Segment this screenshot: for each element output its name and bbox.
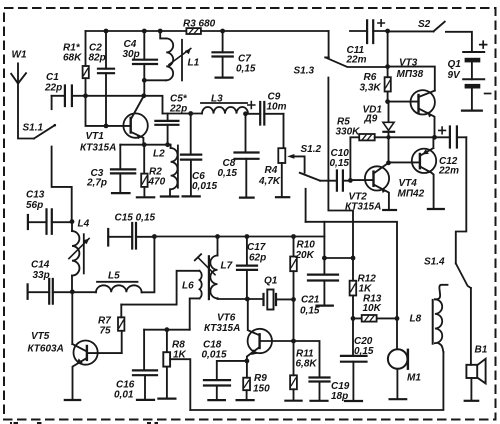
svg-text:9V: 9V: [448, 70, 462, 81]
svg-text:0,015: 0,015: [192, 181, 217, 192]
resistor R12: [350, 258, 357, 318]
capacitor C9: [246, 102, 284, 125]
svg-text:3,3K: 3,3K: [360, 83, 382, 94]
wire R10 to VT6 base node: [293, 299, 295, 341]
microphone M1: [388, 318, 408, 399]
svg-text:Д9: Д9: [364, 114, 378, 125]
svg-text:R4: R4: [265, 165, 278, 176]
capacitor C10: [320, 171, 350, 191]
svg-text:B1: B1: [475, 345, 488, 356]
inductor L6: [190, 271, 202, 330]
svg-text:КТ603А: КТ603А: [28, 344, 64, 355]
svg-text:1K: 1K: [173, 350, 187, 361]
svg-text:L3: L3: [211, 94, 223, 105]
wire L8 bottom to ground bus: [190, 352, 443, 410]
svg-text:4,7K: 4,7K: [258, 176, 281, 187]
resistor R10: [290, 234, 297, 299]
svg-text:L5: L5: [108, 271, 120, 282]
svg-text:КТ315А: КТ315А: [345, 202, 381, 213]
svg-text:18p: 18p: [331, 391, 348, 402]
switch S1.1 arm: [34, 124, 56, 139]
capacitor C16: [133, 330, 157, 400]
svg-text:S1.3: S1.3: [294, 66, 315, 77]
antenna W1: [11, 63, 34, 138]
battery Q1: [462, 41, 491, 110]
resistor R6: [385, 31, 391, 102]
svg-text:VT3: VT3: [399, 58, 418, 69]
wire top rail: [86, 30, 329, 32]
svg-text:МП42: МП42: [398, 189, 425, 200]
wire C12 to S1.4 pole: [456, 137, 467, 263]
switch S1.3 lower contact long wire: [328, 78, 353, 258]
speaker B1: [465, 288, 486, 401]
transistor VT6: [247, 299, 294, 361]
wire C1 node to VT1 collector node and C5 jog: [86, 96, 163, 114]
svg-text:470: 470: [148, 177, 166, 188]
wire C21 node to R12 node: [324, 257, 353, 259]
svg-text:R9: R9: [254, 373, 267, 384]
wire L7 bottom to crystal: [218, 297, 264, 300]
svg-text:C1: C1: [46, 72, 59, 83]
svg-text:L7: L7: [221, 261, 233, 272]
switch S1.1 pole contact: [51, 96, 53, 109]
svg-text:КТ315А: КТ315А: [204, 323, 240, 334]
wire VT3 base: [388, 101, 419, 103]
switch S1.3 pole: [325, 31, 329, 57]
capacitor C5: [155, 114, 178, 145]
svg-text:22m: 22m: [346, 55, 367, 66]
node C10/R5/VT2 base: [348, 178, 353, 183]
capacitor C11: [350, 20, 388, 43]
node C14/L5: [70, 289, 75, 294]
svg-text:КТ315А: КТ315А: [80, 143, 116, 154]
svg-text:C13: C13: [26, 190, 45, 201]
switch S1.4 arm: [456, 263, 471, 288]
wire line A from S1.2 contact to M1: [306, 222, 397, 319]
node C8/C9: [243, 111, 248, 116]
wire VT1 emitter rail: [120, 144, 170, 146]
node C13/L4: [70, 219, 75, 224]
svg-text:S2: S2: [418, 19, 431, 30]
inductor L2: [161, 145, 178, 197]
svg-text:22p: 22p: [169, 104, 187, 115]
resistor R4 potentiometer: [276, 114, 305, 197]
switch S2 arm: [388, 22, 472, 52]
node VD1 on emitter wire: [386, 135, 390, 139]
resistor R8: [158, 330, 190, 410]
svg-text:S1.4: S1.4: [424, 257, 445, 268]
svg-text:L2: L2: [153, 149, 165, 160]
crystal Q1: [264, 290, 294, 310]
wire R5 riser: [350, 137, 359, 180]
svg-text:W1: W1: [12, 50, 27, 61]
inductor L4: [69, 222, 90, 292]
svg-text:VT1: VT1: [86, 131, 105, 142]
capacitor C1: [52, 86, 86, 107]
caption fragment cut at bottom edge: [10, 422, 158, 424]
svg-text:S1.1: S1.1: [23, 123, 44, 134]
svg-text:R3 680: R3 680: [183, 19, 216, 30]
switch S1.2 lower contact: [305, 189, 307, 222]
svg-text:33p: 33p: [33, 270, 50, 281]
resistor R13: [353, 315, 397, 322]
node VT3 emitter / C12: [432, 135, 437, 140]
svg-text:68K: 68K: [63, 53, 82, 64]
node VT6 emitter/C18: [245, 359, 250, 364]
resistor R3: [186, 28, 201, 34]
switch S1.2 arm: [300, 173, 320, 181]
svg-text:M1: M1: [407, 373, 421, 384]
capacitor C20: [341, 318, 367, 401]
wire R7 to L6 top: [121, 271, 199, 305]
node L7 top on rail: [215, 234, 220, 239]
capacitor C12: [439, 127, 467, 148]
inductor L1: [158, 29, 192, 81]
wire lower rail: [154, 236, 324, 238]
capacitor C13: [28, 209, 72, 234]
svg-text:75: 75: [100, 326, 112, 337]
capacitor C8: [235, 114, 259, 198]
svg-text:0,015: 0,015: [202, 350, 227, 361]
svg-text:22p: 22p: [44, 83, 62, 94]
switch S1.4 left contact hook to L8: [435, 285, 447, 300]
resistor R1: [83, 31, 89, 96]
transistor VT1: [123, 96, 147, 145]
inductor L7: [195, 237, 218, 299]
svg-text:10K: 10K: [363, 303, 382, 314]
node C17/L7/VT6 collector: [245, 297, 250, 302]
capacitor C2: [98, 29, 114, 129]
resistor R7: [118, 305, 124, 354]
capacitor C3: [111, 145, 135, 193]
wire rail riser: [323, 222, 325, 258]
wire VT2 base: [350, 179, 373, 181]
diode VD1: [383, 102, 394, 163]
wire VT1 base riser: [86, 96, 131, 126]
wire S1.1 lower contact to C13 node: [52, 147, 72, 222]
svg-text:10m: 10m: [267, 102, 287, 113]
node emitter/R2: [142, 142, 147, 147]
node collector on C1 wire: [141, 93, 146, 98]
resistor R2: [137, 145, 154, 198]
capacitor C21: [308, 258, 338, 306]
svg-text:R6: R6: [364, 72, 377, 83]
svg-text:0,15: 0,15: [330, 158, 350, 169]
node C4/L1 bottom: [142, 78, 147, 83]
svg-text:S1.2: S1.2: [301, 144, 322, 155]
inductor L5: [72, 236, 154, 292]
svg-text:0,15: 0,15: [236, 64, 256, 75]
transistor VT5: [65, 341, 122, 401]
capacitor C14: [28, 279, 73, 304]
transistor VT2: [365, 163, 396, 210]
wire VT4 base: [389, 161, 420, 163]
node C6 top: [188, 111, 193, 116]
svg-text:6,8K: 6,8K: [296, 359, 318, 370]
svg-text:0,15: 0,15: [300, 306, 320, 317]
node A junction C1/R1/base: [83, 93, 88, 98]
svg-text:82p: 82p: [89, 53, 106, 64]
node C15/L5 riser on lower rail: [152, 234, 157, 239]
node S1.3 arm to R6 line: [385, 64, 390, 69]
svg-text:56p: 56p: [26, 200, 43, 211]
svg-text:L1: L1: [188, 58, 200, 69]
capacitor C17: [237, 234, 257, 299]
transformer core L6/L7: [208, 256, 210, 299]
svg-text:L8: L8: [410, 314, 422, 325]
node C11/R6/rail: [385, 29, 390, 34]
svg-text:C15 0,15: C15 0,15: [115, 213, 156, 224]
node C21/R12 link left: [322, 256, 327, 261]
svg-text:20K: 20K: [295, 250, 315, 261]
transistor VT3: [411, 90, 435, 137]
capacitor C4: [133, 29, 157, 81]
capacitor C7: [213, 29, 233, 78]
node VT2 collector / VT4 base: [386, 160, 391, 165]
svg-text:C21: C21: [301, 295, 320, 306]
switch S1.3 arm: [327, 58, 388, 67]
svg-text:L4: L4: [78, 219, 90, 230]
node R12/R13/C20: [351, 316, 356, 321]
capacitor C18: [204, 361, 247, 400]
resistor R9: [237, 361, 254, 400]
inductor L3: [201, 103, 248, 114]
svg-text:330K: 330K: [336, 127, 361, 138]
svg-text:62p: 62p: [249, 253, 266, 264]
capacitor C15: [108, 223, 154, 249]
resistor R5: [359, 134, 450, 140]
node R13/M1: [395, 316, 400, 321]
node R8 top: [165, 327, 170, 332]
svg-text:L6: L6: [182, 281, 194, 292]
capacitor C19: [294, 341, 330, 401]
svg-text:0,15: 0,15: [218, 168, 238, 179]
node Q1/R10: [291, 297, 296, 302]
node R12 top: [351, 256, 356, 261]
inductor L8: [433, 299, 444, 352]
wire L1 bottom link: [144, 79, 166, 81]
node VT3 base tap: [385, 99, 390, 104]
wire R8 node: [144, 329, 190, 331]
wire VT3 collector feed: [388, 67, 435, 91]
svg-text:МП38: МП38: [397, 69, 424, 80]
svg-text:R10: R10: [297, 240, 316, 251]
svg-text:0,15: 0,15: [354, 346, 374, 357]
wire collector riser: [143, 80, 145, 96]
node VT6 base/R11/C19: [291, 339, 296, 344]
wire VT5 base riser: [71, 292, 73, 344]
capacitor C6: [181, 114, 201, 197]
svg-text:VT5: VT5: [31, 331, 50, 342]
wire node to L3: [163, 113, 203, 115]
resistor R11: [285, 341, 301, 401]
svg-text:VT6: VT6: [217, 313, 236, 324]
svg-text:VT4: VT4: [399, 178, 418, 189]
svg-text:Q1: Q1: [264, 276, 278, 287]
node C5 bottom: [165, 142, 170, 147]
svg-text:22m: 22m: [438, 166, 459, 177]
svg-text:2,7p: 2,7p: [86, 178, 107, 189]
svg-text:Q1: Q1: [448, 59, 462, 70]
svg-text:C17: C17: [247, 242, 266, 253]
transistor VT4: [412, 137, 444, 209]
svg-text:C14: C14: [31, 260, 50, 271]
svg-text:30p: 30p: [123, 49, 140, 60]
svg-text:0,01: 0,01: [114, 390, 134, 401]
svg-text:150: 150: [253, 384, 270, 395]
